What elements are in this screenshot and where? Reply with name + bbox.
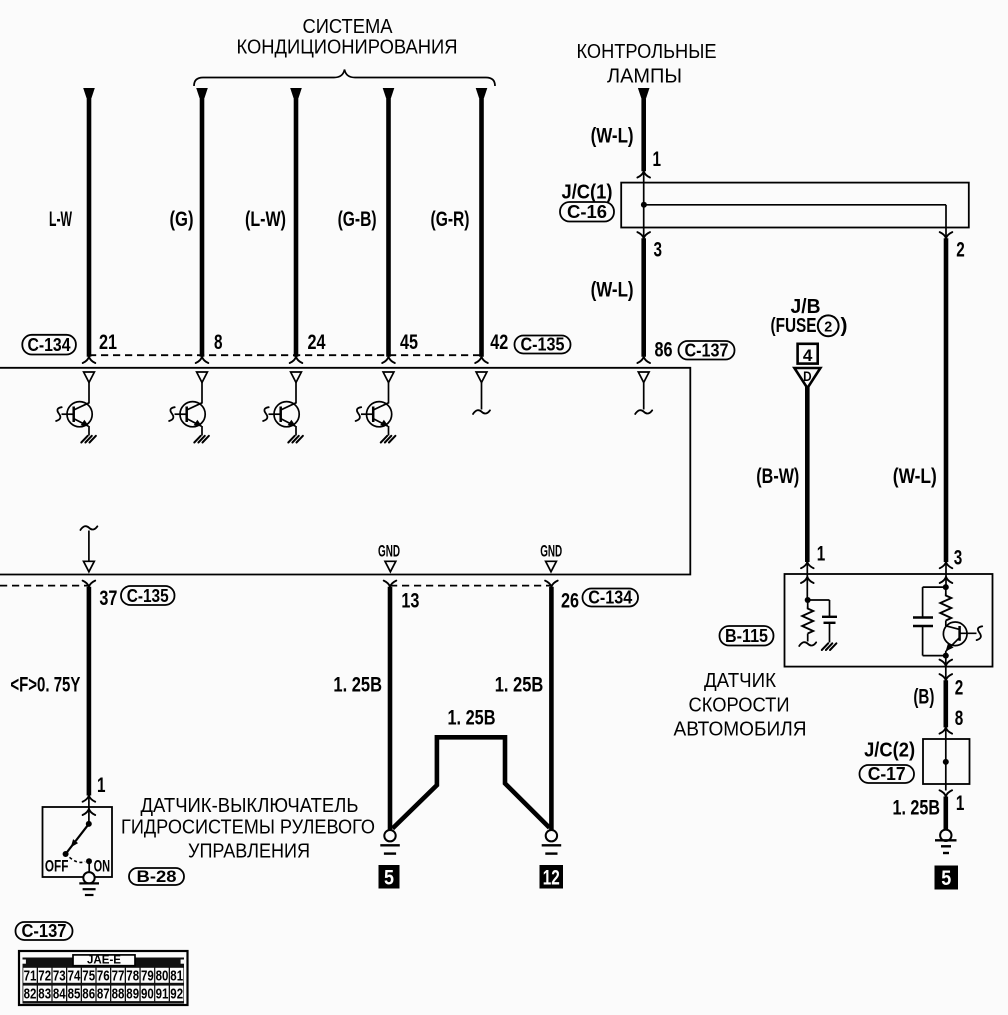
svg-text:<F>0. 75Y: <F>0. 75Y — [10, 674, 80, 697]
svg-text:86: 86 — [82, 987, 95, 1003]
svg-text:АВТОМОБИЛЯ: АВТОМОБИЛЯ — [674, 718, 807, 740]
svg-text:(L-W): (L-W) — [245, 208, 286, 231]
svg-text:85: 85 — [68, 987, 81, 1003]
svg-text:C-137: C-137 — [685, 341, 729, 361]
svg-text:4: 4 — [803, 346, 813, 365]
terminal cells row 71-81 — [23, 968, 183, 985]
svg-text:3: 3 — [954, 547, 963, 570]
svg-text:GND: GND — [378, 543, 400, 561]
svg-text:C-16: C-16 — [567, 202, 607, 222]
pin 2 of J/C(1) — [940, 232, 953, 238]
bridge wire 1.25B between ground rings — [393, 707, 550, 829]
svg-text:GND: GND — [540, 543, 562, 561]
svg-text:26: 26 — [561, 590, 579, 613]
connector label C-134 (bottom) — [583, 588, 639, 608]
connector label C-134 (top) — [22, 335, 76, 355]
svg-text:76: 76 — [97, 969, 110, 985]
pin 3 of J/C(1) — [637, 232, 650, 238]
svg-text:СКОРОСТИ: СКОРОСТИ — [689, 695, 790, 717]
svg-text:42: 42 — [490, 331, 508, 354]
svg-text:73: 73 — [53, 969, 66, 985]
wire (B) from B-115 pin 2 to J/C(2) pin 8 — [913, 676, 963, 733]
connector label C-135 (top) — [515, 335, 571, 355]
svg-text:(B): (B) — [913, 685, 934, 708]
wire (W-L) from J/C(1) pin 2 to B-115 pin 3 — [893, 238, 963, 587]
label J/C(2) / C-17 — [860, 740, 916, 785]
svg-text:77: 77 — [112, 969, 125, 985]
wire (G-R) to pin 42 — [431, 88, 509, 363]
svg-text:24: 24 — [308, 331, 326, 354]
dashed line pin13 to pin26 — [390, 585, 551, 587]
svg-text:90: 90 — [141, 987, 154, 1003]
svg-text:(FUSE: (FUSE — [771, 315, 817, 337]
wire (L-W) to pin 24 — [245, 88, 326, 363]
svg-text:C-135: C-135 — [521, 335, 565, 355]
svg-text:89: 89 — [126, 987, 139, 1003]
svg-text:L-W: L-W — [49, 208, 72, 231]
wire 1.25B from pin 26 to ground 12 — [495, 587, 552, 830]
wire (W-L) from J/C(1) pin 3 to pin 86 — [591, 238, 673, 363]
svg-text:B-115: B-115 — [725, 626, 768, 646]
wire (W-L) from control lamps to J/C(1) pin 1 — [591, 88, 662, 178]
svg-text:91: 91 — [156, 987, 169, 1003]
svg-text:ДАТЧИК: ДАТЧИК — [704, 670, 776, 692]
svg-text:74: 74 — [68, 969, 81, 985]
pin 13 exit — [384, 581, 397, 587]
junction block J/C(2) — [923, 729, 970, 791]
wire 0.75Y from pin 37 to switch — [10, 587, 105, 825]
svg-text:78: 78 — [126, 969, 139, 985]
fuse output triangle D — [794, 368, 820, 388]
svg-text:75: 75 — [82, 969, 95, 985]
label: ДАТЧИК-ВЫКЛЮЧАТЕЛЬ ГИДРОСИСТЕМЫ РУЛЕВОГО УПРАВЛЕНИЯ — [121, 795, 375, 863]
svg-text:C-134: C-134 — [28, 335, 71, 355]
svg-text:86: 86 — [655, 339, 673, 362]
wire (B-W) from fuse to B-115 pin 1 — [756, 387, 825, 600]
svg-text:J/C(2): J/C(2) — [864, 740, 915, 762]
label B-115 — [720, 626, 774, 646]
svg-text:21: 21 — [99, 331, 117, 354]
svg-text:83: 83 — [38, 987, 51, 1003]
pin triangle 21 — [84, 372, 95, 383]
vehicle speed sensor B-115 box — [785, 574, 993, 667]
fuse box terminal 4 — [798, 344, 818, 365]
B-115 left branch: capacitor C to chassis — [808, 600, 837, 650]
dashed bus along top pins — [89, 354, 482, 356]
label J/C(1) / C-16 — [560, 182, 614, 223]
svg-text:1: 1 — [817, 542, 826, 565]
svg-text:D: D — [803, 369, 812, 384]
svg-text:(G-B): (G-B) — [338, 208, 377, 231]
svg-text:ГИДРОСИСТЕМЫ РУЛЕВОГО: ГИДРОСИСТЕМЫ РУЛЕВОГО — [121, 817, 375, 839]
svg-text:JAE-E: JAE-E — [87, 955, 121, 967]
svg-text:C-134: C-134 — [588, 588, 632, 608]
pin 37 exit — [83, 581, 96, 587]
svg-text:УПРАВЛЕНИЯ: УПРАВЛЕНИЯ — [188, 841, 310, 863]
svg-text:1. 25B: 1. 25B — [495, 674, 544, 697]
ground terminal 12 — [540, 830, 564, 889]
B-115 left branch: pull resistor — [799, 597, 816, 646]
svg-text:12: 12 — [543, 866, 560, 889]
pin triangle 45 — [383, 372, 394, 383]
wire (L-W) to pin 21 — [49, 88, 117, 363]
svg-text:B-28: B-28 — [137, 867, 177, 886]
stub of pin 37 inside box — [80, 526, 97, 572]
svg-text:81: 81 — [170, 969, 183, 985]
label: СИСТЕМА КОНДИЦИОНИРОВАНИЯ — [237, 16, 458, 59]
svg-text:OFF: OFF — [45, 856, 69, 875]
pin 26 exit — [545, 581, 558, 587]
svg-text:ЛАМПЫ: ЛАМПЫ — [607, 66, 682, 88]
svg-text:1. 25B: 1. 25B — [893, 797, 941, 820]
svg-text:5: 5 — [941, 867, 951, 890]
label: ДАТЧИК СКОРОСТИ АВТОМОБИЛЯ — [674, 670, 807, 740]
connector label C-135 (bottom) — [121, 586, 175, 606]
svg-text:71: 71 — [24, 969, 37, 985]
GND pin 13 — [378, 543, 400, 572]
wire 1.25B from pin 13 to ground 5 — [333, 587, 390, 831]
transistor Q4 — [356, 383, 396, 443]
connector label C-137 (bottom left) — [16, 921, 73, 941]
svg-text:C-135: C-135 — [127, 586, 169, 606]
transistor Q2 — [169, 383, 209, 443]
svg-text:1. 25B: 1. 25B — [333, 674, 382, 697]
dashed line left of pin 37 — [0, 585, 89, 587]
svg-text:(G): (G) — [170, 208, 194, 231]
connector C-137 face drawing — [19, 951, 188, 1005]
svg-text:13: 13 — [401, 590, 419, 613]
svg-text:8: 8 — [955, 707, 964, 730]
svg-text:2: 2 — [955, 676, 964, 699]
svg-text:1. 25B: 1. 25B — [448, 707, 496, 730]
transistor Q1 — [56, 383, 96, 443]
pin triangle 86 — [638, 372, 649, 383]
svg-text:45: 45 — [400, 331, 418, 354]
terminal cells row 82-92 — [23, 986, 183, 1003]
GND pin 26 — [540, 543, 562, 572]
stub of pin 86 inside box — [635, 383, 652, 415]
svg-text:1: 1 — [653, 148, 662, 171]
switch B-28 box — [43, 807, 113, 895]
svg-text:(W-L): (W-L) — [591, 125, 634, 148]
B-115 pin 2 exit — [940, 656, 953, 681]
pin triangle 42 — [476, 372, 487, 383]
svg-text:ДАТЧИК-ВЫКЛЮЧАТЕЛЬ: ДАТЧИК-ВЫКЛЮЧАТЕЛЬ — [141, 795, 359, 817]
wire (G-B) to pin 45 — [338, 88, 419, 363]
ground terminal 5 (left) — [379, 830, 400, 889]
pin triangle 8 — [197, 372, 208, 383]
connector label C-137 (top) — [679, 341, 735, 361]
svg-text:8: 8 — [214, 331, 223, 354]
pin triangle 24 — [291, 372, 302, 383]
label J/B (FUSE 2) — [771, 296, 848, 337]
transistor Q3 — [263, 383, 303, 443]
svg-text:1: 1 — [956, 792, 965, 815]
svg-text:72: 72 — [38, 969, 51, 985]
B-115 right branch: resistor and transistor Q — [940, 584, 982, 655]
svg-text:82: 82 — [24, 987, 37, 1003]
svg-text:(B-W): (B-W) — [756, 465, 799, 488]
svg-text:КОНТРОЛЬНЫЕ: КОНТРОЛЬНЫЕ — [577, 41, 717, 63]
B-115 right branch: capacitor loop — [913, 587, 949, 659]
svg-text:92: 92 — [170, 987, 183, 1003]
svg-text:1: 1 — [97, 774, 106, 797]
svg-text:37: 37 — [99, 587, 117, 610]
wire 1.25B from J/C(2) pin 1 to ground 5 — [893, 790, 965, 830]
stub of pin 42 inside box — [473, 383, 490, 415]
svg-text:C-137: C-137 — [22, 921, 67, 941]
svg-text:(W-L): (W-L) — [893, 465, 937, 488]
svg-text:3: 3 — [654, 239, 663, 262]
svg-text:КОНДИЦИОНИРОВАНИЯ: КОНДИЦИОНИРОВАНИЯ — [237, 37, 458, 59]
svg-text:): ) — [841, 315, 848, 337]
ECU box (ETACS) — [0, 368, 690, 575]
svg-text:(W-L): (W-L) — [591, 279, 634, 302]
svg-text:C-17: C-17 — [868, 764, 906, 784]
label B-28 — [129, 867, 184, 886]
svg-text:(G-R): (G-R) — [431, 208, 470, 231]
svg-text:J/C(1): J/C(1) — [562, 182, 613, 204]
svg-text:80: 80 — [156, 969, 169, 985]
svg-text:2: 2 — [956, 239, 965, 262]
ground terminal 5 (right) — [935, 830, 959, 890]
label: КОНТРОЛЬНЫЕ ЛАМПЫ — [577, 41, 717, 88]
svg-text:ON: ON — [94, 856, 111, 875]
svg-text:2: 2 — [824, 319, 832, 336]
svg-text:5: 5 — [384, 866, 394, 889]
junction block J/C(1) — [621, 173, 969, 238]
brace over A/C wires — [194, 70, 495, 87]
svg-text:87: 87 — [97, 987, 110, 1003]
svg-text:СИСТЕМА: СИСТЕМА — [303, 16, 394, 38]
svg-text:84: 84 — [53, 987, 66, 1003]
svg-text:79: 79 — [141, 969, 154, 985]
wire (G) to pin 8 — [170, 88, 223, 363]
svg-text:88: 88 — [112, 987, 125, 1003]
